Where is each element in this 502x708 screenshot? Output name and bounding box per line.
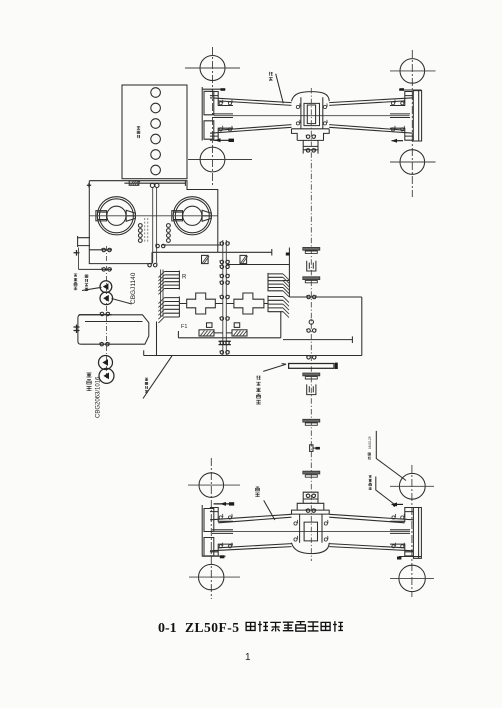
pump double 1 (upper) [99,356,113,370]
rear axle right hub bracket bottom [390,544,413,556]
coupling block left [187,293,216,314]
label 变速箱 [145,378,148,393]
wheel rear right lower [390,565,434,591]
leader tire label [376,431,406,481]
wire main centerline dashdot [310,88,312,561]
wire pto box to frame [143,350,145,355]
rear differential dome [292,543,330,554]
front axle left hub bracket top [210,92,233,106]
front diff output step [292,129,330,141]
wheel rear left lower [189,564,240,589]
leader CBGJ1140 [112,299,132,305]
svg-text:0-1: 0-1 [158,621,177,636]
wire: front-left wheel vertical centerline [212,47,214,186]
wire: front-right wheel vertical centerline [411,50,413,197]
joint rear diff step [306,509,316,512]
rear axle right tube [329,514,413,551]
flag rear-right hub bottom [397,557,401,560]
bearing front diff 1 [296,103,300,108]
rear differential gear [304,522,317,541]
wire gearbox left outline [156,322,158,356]
svg-text:1: 1 [245,652,251,663]
leader 前桥 [276,74,284,103]
bearing front-right tube bottom 2 [401,126,405,131]
front diff output yoke [303,140,318,153]
flag front-right hub top [399,88,404,91]
bearing stack converter right [167,224,171,243]
wheel rear right upper [390,473,434,499]
wire pump header line [79,268,113,270]
bearing front-right tube bottom 1 [391,126,395,131]
rear differential housing [300,514,322,543]
flag front-left hub top [221,88,226,91]
rear diff input step [292,503,330,514]
svg-text:CBG2063/1016: CBG2063/1016 [96,376,102,418]
rear axle right hub plate [413,508,421,559]
flag frame left top [286,253,290,256]
arrow 后传动轴 leader end [392,504,399,507]
gear mesh top center [150,183,159,187]
joint gearbox bottom1 [220,341,230,345]
bearing rear-right tube top 2 [401,514,405,519]
bearing rear-left tube top 2 [228,514,232,519]
torque converter right wheel [172,197,212,235]
engine cylinder 4 [151,134,161,144]
joint mainshaft e [220,317,230,321]
tick pto bracket [74,325,80,334]
clutch pack F [158,297,179,323]
wire lower clutch links [214,332,232,334]
bearing rear-right tube top 1 [392,514,396,519]
gearbox lower clutch left [199,323,214,336]
rear differential input yoke [303,492,318,503]
engine cylinder 3 [151,119,161,129]
mark converter left top [87,183,91,187]
wire front-right hub top line [399,89,422,91]
front axle left hub plate [202,87,214,141]
bearing front diff 2 [323,103,327,108]
joint mainshaft d [220,295,230,299]
wire gearbox internal bottom line [178,311,280,338]
joint converter bottom left [102,248,112,252]
gearbox main shaft [223,240,227,356]
wire frame left vertical [288,248,290,298]
front axle right tube [329,98,413,133]
caption title [246,621,343,632]
flange driveshaft B [303,277,320,283]
bearing front-right tube top 2 [401,100,405,105]
svg-text:CBGJ1140: CBGJ1140 [130,272,137,304]
joint aux shaft [155,244,165,248]
wire gearbox to centerline [227,264,289,266]
bearing front-left tube bottom 1 [219,126,223,131]
arrow mark rear-left hub [214,502,235,506]
converter shaft line [89,215,218,217]
clutch pack right lower [268,296,289,318]
coupling block right [234,293,264,314]
joint pump mid [100,312,110,316]
front axle hub shaft double lines [212,114,410,118]
label 后传动轴 [369,475,372,489]
joint mainshaft c0 [220,274,230,278]
pump double 2 (lower) [99,368,114,383]
engine cylinder 2 [151,103,161,113]
wire rear-left hub bottom line [202,555,226,557]
grease fitting [310,445,320,452]
joint converter bottom mid [147,263,157,267]
wire pump mid line [79,314,112,316]
pump steering (upper) [100,281,112,293]
svg-text:16.00-25: 16.00-25 [368,436,372,449]
gearbox lower clutch right [232,323,247,336]
bearing rear diff 3 [294,536,298,541]
bearing rear diff 1 [294,520,298,525]
label 前桥 [269,72,273,81]
wheel front left inner [188,147,252,172]
joint driveshaft 357 [306,356,316,360]
wire front-left hub top line [202,88,226,90]
wheel front right outer [390,59,436,84]
joint rear diff input [306,494,316,498]
joint driveshaft 297 [306,295,316,299]
wire pump feed left [78,248,80,270]
wire pto stub right [283,336,352,343]
gear input 2 [240,255,248,263]
gearbox bottom frame line [144,355,362,357]
joint mainshaft a [220,260,230,264]
joint pump header [102,268,112,272]
bearing rear diff 4 [324,536,328,541]
joint driveshaft 330 [306,329,316,333]
wire block links [179,303,268,305]
flag rear-left hub bottom [220,555,225,558]
converter housing box [89,181,218,264]
torque converter left wheel [96,197,136,235]
front axle right hub plate [413,91,421,141]
engine cylinder 6 [151,165,161,175]
leader 后传动轴 [376,477,394,505]
joint mainshaft top [220,242,230,246]
rear axle left hub plate [202,505,214,557]
wire aux shaft [162,244,222,246]
joint front diff lower [306,149,316,153]
engine block box [122,85,187,179]
wire converter inner shaft dotted [145,218,148,243]
front differential dome [292,92,330,102]
slip yoke lower [307,384,316,394]
rear axle left hub bracket bottom [210,544,233,556]
gearbox input shaft line [160,249,271,256]
bearing rear-right tube bottom 1 [392,543,396,548]
arrow mark front-right hub [392,139,404,143]
wire rear-right wheel vertical centerline [411,465,413,597]
bearing rear-left tube bottom 1 [219,543,223,548]
flange driveshaft E [303,471,320,477]
wheel front left outer [185,56,240,81]
bearing ring 322 [309,320,313,324]
bearing front-left tube bottom 2 [228,126,232,131]
label 后桥 [255,487,259,497]
bearing rear-left tube bottom 2 [228,543,232,548]
converter center shaft [153,188,157,264]
bracket left of converter [78,236,90,247]
leader 中间传动轴 [263,364,286,372]
leader 变速箱 [143,356,172,399]
joint gearbox bottom2 [220,351,230,355]
bearing rear-left tube top 1 [219,514,223,519]
tick bracket left [74,250,80,256]
label 变矩器泵 column1 [74,274,77,290]
clutch pack R [158,271,179,295]
flange driveshaft D [303,419,320,425]
pto housing box [78,315,149,344]
front axle shaft centerline [214,115,410,117]
gear input 1 [202,255,210,263]
joint mainshaft c [220,281,230,285]
bearing front-left tube top 2 [228,100,232,105]
front axle right hub bracket top [390,92,413,106]
bracket converter top [124,181,185,186]
pto housing inner line [85,321,143,323]
wire frame top horizontal [289,296,361,298]
flange driveshaft A [303,247,320,253]
engine cylinder 1 [151,88,161,98]
front differential gear [304,103,320,125]
wheel rear left upper [188,473,240,498]
joint pto bottom [100,342,110,346]
front axle right hub bracket bottom [390,128,413,140]
clutch pack right upper [268,273,289,297]
label 中间传动轴 [256,376,260,405]
wire gearbox left countershaft [161,270,163,318]
bearing front diff 3 [296,120,300,125]
bearing front diff 4 [323,120,327,125]
bearing rear diff 2 [324,520,328,525]
front differential housing [292,97,330,129]
wheel front right inner [390,150,436,175]
svg-text:ZL50F-5: ZL50F-5 [185,620,240,635]
arrow mark front-left hub [215,138,235,142]
rear axle shaft centerline [212,531,410,533]
wire converter pump line [89,249,112,251]
label 发动机 [137,127,140,139]
wire rear-right hub bottom line [399,556,421,558]
joint mainshaft b [220,265,230,269]
front axle left hub bracket bottom [210,128,233,140]
rear differential shoulders [292,513,330,515]
joint front diff upper [306,135,316,139]
front axle left tube [210,98,292,133]
label 轮胎16.00-25 [368,453,371,460]
bearing rear-right tube bottom 2 [401,543,405,548]
leader 后桥 [264,500,275,520]
leader pump label [82,287,102,290]
gear converter top [129,181,140,185]
wire rear-left wheel vertical centerline [210,458,212,599]
arrow mark rear-right hub [392,502,404,506]
flange gearbox bottom [219,341,231,344]
svg-text:R: R [182,275,187,281]
engine cylinder 5 [151,150,161,160]
wire pump shaft dashed [106,246,108,378]
bearing front-right tube top 1 [391,100,395,105]
wire frame right vertical [361,297,363,356]
bearing front-left tube top 1 [219,100,223,105]
wire right clutch to frame [283,280,289,282]
nub support bar right [335,363,338,369]
pump working (lower) [100,292,113,305]
rear axle hub shaft double lines [212,530,410,534]
label 变矩器泵 column2 [85,275,88,291]
flange driveshaft C [303,373,320,379]
center support bearing bar [289,364,334,369]
rear axle left hub bracket top [210,508,233,522]
rear axle right hub bracket top [390,508,413,522]
rear axle left tube [210,514,292,551]
label 双联泵 [87,373,92,391]
slip yoke upper [307,261,316,271]
svg-text:F1: F1 [181,324,187,330]
bearing stack converter left [138,224,142,243]
